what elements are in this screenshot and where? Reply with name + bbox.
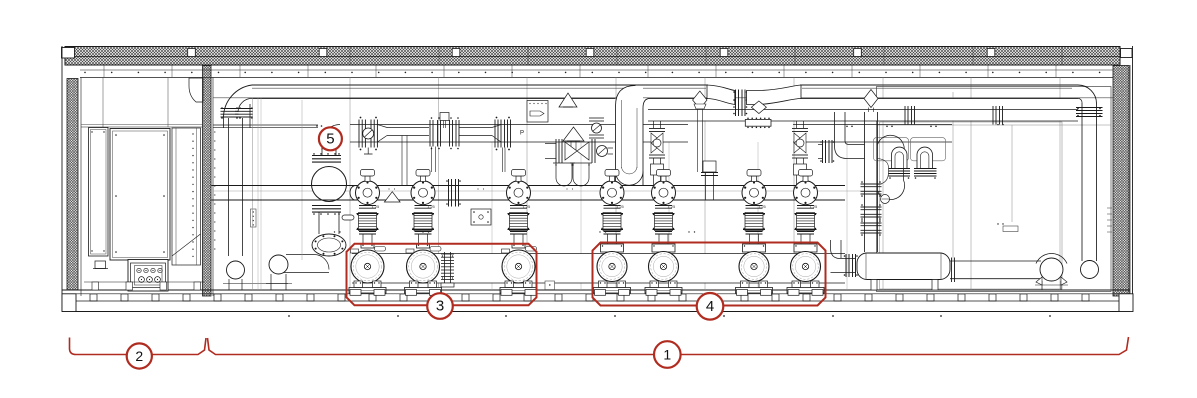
svg-text:1.25: 1.25 — [810, 204, 819, 209]
pump base P6 — [736, 288, 773, 294]
pump volute feet P3 — [505, 281, 514, 288]
tank drain supports — [270, 274, 272, 290]
D to E drop pipe — [401, 136, 403, 186]
bottom elbow to separator — [831, 240, 857, 259]
tank drain end circle — [269, 255, 288, 274]
right wall (hatched) — [1113, 66, 1129, 297]
pump P3 — [512, 244, 525, 248]
pump level header tag box — [545, 281, 555, 290]
pump volute feet P5 — [650, 281, 659, 288]
suction manifold end cap — [350, 186, 361, 201]
spare pump position blind flange stack — [444, 252, 446, 283]
crossover mid segment — [747, 85, 802, 105]
flange below manifold P7 — [797, 205, 814, 207]
omega loop 1 — [892, 147, 908, 168]
base corner block left — [62, 294, 76, 312]
right riser 1 main — [864, 112, 866, 252]
expansion tank ball — [312, 167, 347, 202]
top pipe right elbow — [1078, 85, 1097, 104]
spare stub group4 — [705, 172, 707, 200]
omega loop panels — [874, 138, 909, 161]
suction coupling P3 — [507, 181, 531, 205]
red bracket 1 — [208, 337, 1129, 355]
pump base feet P1 — [350, 290, 361, 296]
right pipe end saddle — [1041, 281, 1043, 290]
red bracket 2 — [70, 338, 207, 355]
suction coupling P6 — [742, 181, 766, 205]
floor junction box — [95, 261, 106, 269]
roof left end cap — [62, 48, 75, 59]
valve handle P3 — [516, 176, 521, 182]
svg-text:P: P — [520, 131, 524, 137]
header valve stack 1 — [358, 120, 360, 148]
red group box 3 — [347, 244, 537, 305]
base corner block right — [1119, 294, 1133, 312]
pump volute feet P4 — [599, 281, 608, 288]
header D bolt dot pairs — [846, 126, 848, 128]
pump base feet P2 — [406, 290, 417, 296]
pump base P7 — [787, 288, 824, 294]
red callout circle 3 — [427, 293, 453, 319]
left riser supports — [228, 279, 230, 290]
partition face dots column — [214, 131, 215, 132]
svg-text:1.25: 1.25 — [523, 204, 532, 209]
pump inlet pipe P5 — [655, 231, 672, 233]
suction coupling P2 — [411, 181, 435, 205]
pump P1 — [361, 244, 374, 248]
red callout circle 5 — [319, 127, 342, 150]
valve handle P5 — [661, 176, 666, 182]
main top pipe run — [252, 84, 708, 86]
red callout circle 2 — [127, 343, 152, 368]
flex connector P4 — [603, 213, 621, 231]
suction branch pipe body (white mask) — [616, 86, 1079, 185]
right wall tick marks — [1107, 207, 1112, 209]
pump room mid panel line — [213, 97, 1113, 99]
pump volute feet P6 — [741, 281, 750, 288]
thin header pair — [213, 124, 318, 126]
air vent pyramid 2 — [563, 127, 584, 141]
omega loop 2 — [917, 147, 933, 168]
floor line — [62, 289, 1130, 291]
pump inlet pipe P7 — [797, 231, 814, 233]
flex connector P1 — [359, 213, 377, 231]
tank tee dots — [316, 125, 318, 127]
svg-text:1.25: 1.25 — [616, 204, 625, 209]
panel C diagonal brace — [172, 234, 201, 256]
suction branch horizontal run — [648, 109, 1078, 111]
tank drain pipe horizontal — [286, 254, 314, 256]
pump room lower panel line — [213, 190, 876, 192]
valve handle P2 — [421, 176, 426, 182]
svg-text:4: 4 — [706, 298, 714, 315]
pump volute feet P1 — [354, 281, 363, 288]
cable gland box — [128, 260, 168, 292]
manifold E flange pair — [448, 179, 450, 207]
right section wall panel — [877, 87, 1112, 292]
svg-text:3: 3 — [436, 298, 444, 315]
discharge header left elbow — [322, 125, 340, 151]
riser 1 coupling stacks — [861, 183, 882, 185]
pump room half seams — [491, 142, 493, 290]
svg-text:1.25: 1.25 — [668, 204, 677, 209]
flange below manifold P3 — [510, 205, 527, 207]
return bend — [878, 135, 905, 199]
panel seam x302 — [301, 100, 303, 260]
pump inlet pipe P2 — [415, 231, 432, 233]
base upper rail — [62, 293, 1130, 295]
left riser pipe — [223, 118, 225, 129]
panel seam x255 — [252, 98, 254, 290]
run F flange pairs — [992, 106, 994, 125]
pump inlet pipe P1 — [359, 231, 376, 233]
riser 1 side valve circle — [881, 195, 890, 204]
suction coupling P5 — [652, 181, 676, 205]
pump base P3 — [500, 288, 537, 294]
right pipe end large — [1040, 258, 1063, 281]
tank riser pipe — [321, 147, 323, 156]
diamond vent 1 — [693, 91, 707, 109]
pump base P5 — [645, 288, 682, 294]
roof panel (crosshatched) — [65, 47, 1120, 66]
pump base feet P7 — [788, 290, 799, 296]
right riser 2 — [835, 112, 865, 159]
roof right end cap — [1121, 49, 1133, 58]
sensor strip — [251, 209, 257, 227]
flex connector P6 — [745, 213, 763, 231]
right vent diamond — [864, 90, 878, 108]
riser 2 coupling stack — [822, 140, 824, 163]
air separator vessel — [857, 253, 950, 280]
separator inlet coupling — [845, 254, 847, 277]
flex connector P7 — [797, 213, 815, 231]
pump base P4 — [594, 288, 631, 294]
svg-text:2: 2 — [135, 348, 143, 364]
electrical cabinet B (main panel) — [110, 129, 170, 261]
suction coupling P1 — [356, 181, 380, 205]
horizontal valve assembly — [545, 143, 556, 145]
air vent pyramid 1 — [559, 93, 577, 107]
diamond vent 2 — [751, 101, 766, 114]
lower panel line dots — [334, 231, 335, 232]
roof inner line — [65, 56, 1120, 58]
pump P5 — [652, 244, 675, 252]
right drop pipe flanges — [1076, 107, 1103, 109]
header flange pair B — [449, 120, 451, 147]
flange below manifold P4 — [604, 205, 621, 207]
suction coupling P4 — [600, 181, 624, 205]
header reducer 2 — [459, 127, 492, 129]
riser valve V4b — [796, 121, 798, 128]
riser valve V4a — [653, 121, 655, 128]
flange below manifold P6 — [746, 205, 763, 207]
header drop legs — [431, 147, 433, 173]
valve handle P6 — [752, 176, 757, 182]
tank base elbow flange ring — [312, 234, 346, 256]
suction manifold pipe — [212, 185, 846, 187]
left outer wall line — [61, 46, 63, 312]
header reducer 1 — [377, 125, 387, 128]
right panel seam dots — [886, 101, 888, 103]
suction coupling P7 — [794, 181, 818, 205]
flex connector P2 — [414, 213, 432, 231]
pump base feet P5 — [646, 290, 657, 296]
orifice tag plate — [471, 209, 491, 225]
valve handle P1 — [365, 176, 370, 182]
partition wall (hatched) — [203, 66, 212, 297]
pump P4 — [601, 244, 624, 252]
pump P7 — [794, 244, 817, 252]
pump inlet pipe P6 — [746, 231, 763, 233]
tank bottom flange — [312, 205, 341, 207]
air separator feet — [871, 280, 877, 291]
red callout circle 4 — [697, 293, 724, 320]
pump base P2 — [405, 288, 442, 294]
flange below manifold P2 — [415, 205, 432, 207]
electrical panel C — [172, 128, 201, 265]
svg-text:5: 5 — [326, 130, 334, 147]
base tie-down marks — [288, 315, 290, 317]
pump inlet pipe P3 — [510, 231, 527, 233]
header sensor — [440, 113, 449, 121]
vent duct elbow — [189, 78, 203, 102]
flow meter tag box — [527, 101, 548, 123]
pump volute feet P7 — [792, 281, 801, 288]
pump room panel seam lines — [349, 78, 351, 291]
svg-text:1.25: 1.25 — [372, 204, 381, 209]
pipe run to end circle — [950, 260, 1041, 262]
upper wall panel band — [80, 69, 1113, 71]
bolted block manifold — [745, 120, 771, 127]
valve handle P4 — [610, 176, 615, 182]
top pipe left elbow — [224, 85, 253, 118]
flange below manifold P5 — [655, 205, 672, 207]
manifold E support wedge — [384, 192, 400, 202]
right drop pipe — [1081, 102, 1083, 261]
flange below manifold P1 — [359, 205, 376, 207]
left riser pipe end circle — [227, 261, 245, 279]
pump level header pipe behind pumps — [352, 254, 845, 284]
panel fastener dots row — [84, 72, 86, 74]
pump base P1 — [349, 288, 386, 294]
left wall inner face — [80, 78, 82, 297]
tank drain handle — [342, 215, 354, 220]
svg-text:1: 1 — [663, 347, 671, 363]
red group box 4 — [593, 243, 826, 306]
header valve stack 2 — [494, 120, 496, 148]
tank upper flange — [312, 155, 341, 157]
pump P2 — [417, 244, 430, 248]
right drop pipe end circle — [1081, 261, 1099, 279]
header flange pair A — [429, 120, 431, 147]
pump base feet P3 — [501, 290, 512, 296]
red callout circle 1 — [654, 341, 681, 368]
svg-text:1.25: 1.25 — [427, 204, 436, 209]
suction branch drop from top main — [616, 86, 636, 186]
base beam — [62, 300, 1130, 302]
flex connector P5 — [655, 213, 673, 231]
inner panel line x953 — [952, 92, 954, 260]
pump P6 — [743, 244, 766, 252]
crossover flange pair — [735, 90, 737, 117]
gauge stack — [589, 117, 604, 119]
svg-text:1.25: 1.25 — [758, 204, 767, 209]
roof vent boxes — [188, 49, 196, 57]
roof seam lines — [349, 47, 351, 66]
valve handle P7 — [803, 176, 808, 182]
discharge header pipe — [350, 124, 688, 126]
base cross feet — [90, 294, 97, 301]
tank lower pipe — [318, 212, 320, 234]
left riser flanges — [221, 108, 239, 110]
pump volute feet P2 — [410, 281, 419, 288]
gland plate holes — [137, 268, 141, 272]
pump inlet pipe P4 — [604, 231, 621, 233]
left wall (hatched) — [67, 79, 78, 291]
flex connector P3 — [510, 213, 528, 231]
strainer vessels — [556, 163, 572, 186]
right outer wall line — [1129, 65, 1131, 312]
crossover S-dip left segment — [707, 85, 735, 105]
panel C dotted column — [192, 133, 193, 134]
electrical room wall seams — [102, 78, 104, 128]
pump base feet P4 — [595, 290, 606, 296]
electrical cabinet A — [89, 128, 109, 257]
elec room base plinths — [84, 281, 204, 283]
pump base feet P6 — [737, 290, 748, 296]
